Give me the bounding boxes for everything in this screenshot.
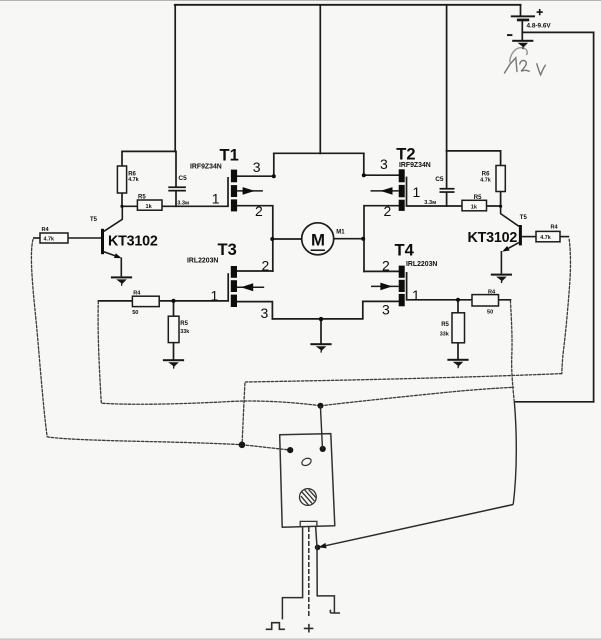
wire bridge bottom xyxy=(272,301,362,319)
svg-text:R5: R5 xyxy=(180,321,188,327)
svg-text:KT3102: KT3102 xyxy=(468,230,518,246)
node right gate divider junction xyxy=(456,298,460,302)
ground battery xyxy=(512,40,533,49)
wire motor right xyxy=(334,238,364,240)
node T2 pin3 corner xyxy=(362,173,366,177)
servo connector box xyxy=(280,434,335,528)
transistor T5 KT3102 right xyxy=(501,206,570,273)
svg-text:R4: R4 xyxy=(42,227,50,233)
resistor R4 right 50 xyxy=(472,295,499,306)
wire left gate line T1 pin 1 xyxy=(122,205,228,207)
wire right gate line T2 pin 1 xyxy=(407,205,501,207)
wire T3 gate chain xyxy=(99,300,229,302)
wire T2 pin2 to right bridge node xyxy=(364,206,399,272)
svg-text:3.3м: 3.3м xyxy=(424,200,436,206)
battery minus sign xyxy=(507,34,512,36)
svg-text:3: 3 xyxy=(382,302,390,318)
cable wire left xyxy=(282,527,302,619)
wire hand left outer from R4 base xyxy=(31,240,241,445)
resistor R4 left base 4.7k xyxy=(40,233,68,243)
svg-text:T4: T4 xyxy=(395,242,415,260)
wire hand cross line upper xyxy=(242,374,562,445)
svg-text:50: 50 xyxy=(132,310,138,316)
svg-text:T2: T2 xyxy=(396,145,415,163)
connector cable notch xyxy=(300,521,317,527)
battery GB1 plates xyxy=(511,15,535,21)
resistor R5 right 1k xyxy=(462,200,487,211)
svg-text:T1: T1 xyxy=(220,147,239,165)
svg-text:T5: T5 xyxy=(520,215,528,221)
wire top supply rail xyxy=(175,4,521,6)
battery plus sign xyxy=(537,9,543,15)
wire battery minus to right edge xyxy=(522,31,593,33)
wire T1 pin2 to left bridge node xyxy=(237,206,273,271)
border frame top edge xyxy=(0,0,601,1)
wire left R5 33k stem xyxy=(173,301,175,359)
node on receiver cable xyxy=(315,545,321,551)
wire T4 pin3 lower xyxy=(363,300,399,302)
svg-text:IRF9Z34N: IRF9Z34N xyxy=(399,162,431,169)
transistor T5 KT3102 left xyxy=(33,206,122,276)
battery plus stem xyxy=(520,5,522,16)
node bridge ground junction xyxy=(319,317,323,321)
wire right R5 33k stem xyxy=(457,300,459,359)
transistor T2 MOSFET IRF9Z34N xyxy=(371,169,407,211)
resistor R5 left 33k xyxy=(168,316,179,342)
wire hand battery return down xyxy=(513,402,516,505)
cable wire right xyxy=(316,527,335,613)
svg-text:R4: R4 xyxy=(488,289,496,295)
wire T1 pin3 corner xyxy=(237,153,274,176)
arrowhead on diagonal xyxy=(318,543,326,549)
node left R5-R6 junction xyxy=(120,205,123,208)
svg-text:T5: T5 xyxy=(90,217,98,223)
svg-text:R5: R5 xyxy=(441,322,449,328)
wire hand right from R4 50 xyxy=(510,301,514,402)
wire T3 pin2 xyxy=(237,270,273,272)
battery minus stem xyxy=(521,21,523,40)
wire left R6 branch xyxy=(122,151,175,166)
motor M1 xyxy=(302,223,334,255)
wire center rail drop xyxy=(319,5,321,154)
svg-text:1k: 1k xyxy=(471,205,478,211)
wire diagonal to receiver cable xyxy=(321,505,513,547)
transistor T1 MOSFET IRF9Z34N xyxy=(228,170,263,212)
ground bridge center xyxy=(310,343,331,352)
svg-text:R4: R4 xyxy=(133,290,141,296)
resistor R5 left 1k xyxy=(137,200,162,210)
connector right pad xyxy=(320,446,326,452)
svg-text:50: 50 xyxy=(487,309,493,315)
svg-text:R4: R4 xyxy=(551,224,559,230)
cable wire middle xyxy=(308,527,310,617)
wire junction to connector right pad xyxy=(320,406,322,449)
svg-text:2: 2 xyxy=(255,203,263,219)
svg-text:IRL2203N: IRL2203N xyxy=(187,257,218,264)
svg-text:3: 3 xyxy=(261,305,269,321)
node left gate divider junction xyxy=(171,299,175,303)
svg-text:1k: 1k xyxy=(146,204,153,210)
resistor R6 left 4.7k xyxy=(117,166,126,193)
resistor R5 right 33k xyxy=(452,313,465,343)
plus symbol middle xyxy=(304,624,314,633)
wire right edge down xyxy=(593,32,595,401)
svg-text:C5: C5 xyxy=(178,175,187,182)
svg-text:2: 2 xyxy=(262,258,270,274)
wire left R6 bottom to junction xyxy=(121,193,123,206)
svg-text:KT3102: KT3102 xyxy=(108,234,158,250)
wire hand lower right from junction xyxy=(321,387,514,406)
svg-text:3.3м: 3.3м xyxy=(177,200,189,206)
svg-text:4.8-9.6V: 4.8-9.6V xyxy=(527,23,552,30)
connector trim screw hatched circle xyxy=(300,489,317,506)
svg-text:4.7k: 4.7k xyxy=(128,177,139,183)
svg-text:2: 2 xyxy=(382,258,390,274)
connector small ellipse xyxy=(301,457,313,467)
svg-text:2: 2 xyxy=(384,203,392,219)
svg-text:IRL2203N: IRL2203N xyxy=(406,261,437,268)
node hand junction big left xyxy=(239,442,246,449)
svg-text:M: M xyxy=(311,231,325,250)
resistor R4 right base 4.7k xyxy=(536,231,560,241)
pulse symbol left xyxy=(266,623,285,630)
wire hand right outer from R4 base xyxy=(562,239,571,373)
node hand junction mid xyxy=(318,403,324,409)
svg-text:M1: M1 xyxy=(336,230,345,236)
svg-text:1: 1 xyxy=(212,190,220,206)
wire hand to connector left pin xyxy=(242,445,290,450)
svg-text:3: 3 xyxy=(380,156,388,172)
node bridge right junction xyxy=(361,237,365,241)
capacitor C5 left plates xyxy=(168,186,186,191)
svg-text:33k: 33k xyxy=(180,329,189,335)
wire T2 pin3 corner xyxy=(364,153,399,175)
svg-text:IRF9Z34N: IRF9Z34N xyxy=(190,163,222,170)
wire right rail drop xyxy=(446,5,448,151)
svg-text:R5: R5 xyxy=(474,195,482,201)
svg-text:1: 1 xyxy=(211,287,219,303)
wire T4 pin2 xyxy=(364,270,399,272)
svg-text:C5: C5 xyxy=(435,176,444,183)
capacitor C5 left stem xyxy=(175,151,177,206)
svg-text:3: 3 xyxy=(253,159,261,175)
node right R5-R6 junction xyxy=(499,205,502,208)
ground right emitter xyxy=(491,274,512,283)
wire right R6 branch xyxy=(447,151,501,166)
svg-text:33k: 33k xyxy=(440,331,449,337)
svg-text:4.7k: 4.7k xyxy=(44,237,55,243)
capacitor C5 right plates xyxy=(440,188,455,193)
wire left rail drop xyxy=(174,5,176,152)
svg-text:4.7k: 4.7k xyxy=(540,235,551,241)
resistor R4 left 50 xyxy=(132,296,159,306)
hand-drawn wires group xyxy=(31,239,570,450)
capacitor C5 right stem xyxy=(446,151,448,206)
step symbol right xyxy=(330,610,340,613)
wire hand left inner from T3 gate xyxy=(98,301,319,405)
resistor R6 right 4.7k xyxy=(496,166,505,192)
wire motor left xyxy=(273,238,302,240)
node bridge left junction xyxy=(270,237,274,241)
svg-text:1: 1 xyxy=(413,184,421,200)
wire right R6 bottom to junction xyxy=(500,192,502,207)
svg-text:1: 1 xyxy=(412,287,420,303)
wire pin3 link T1-T2 xyxy=(274,152,364,154)
ground left emitter xyxy=(111,276,132,285)
wire bridge ground stem xyxy=(320,319,322,344)
ground left R5 33k xyxy=(163,359,184,368)
wire T3 pin3 lower xyxy=(237,302,272,319)
svg-text:4.7k: 4.7k xyxy=(480,177,491,183)
wire bottom right return xyxy=(515,401,594,403)
wire T4 gate chain xyxy=(407,299,511,301)
transistor T4 MOSFET IRL2203N xyxy=(371,266,407,307)
transistor T3 MOSFET IRL2203N xyxy=(228,266,264,307)
connector left pad xyxy=(287,447,293,453)
svg-text:T3: T3 xyxy=(218,241,237,259)
handwritten 12v annotation xyxy=(505,48,546,75)
ground right R5 33k xyxy=(447,359,468,368)
node T1 pin3 corner xyxy=(272,174,276,178)
svg-text:R5: R5 xyxy=(138,195,146,201)
